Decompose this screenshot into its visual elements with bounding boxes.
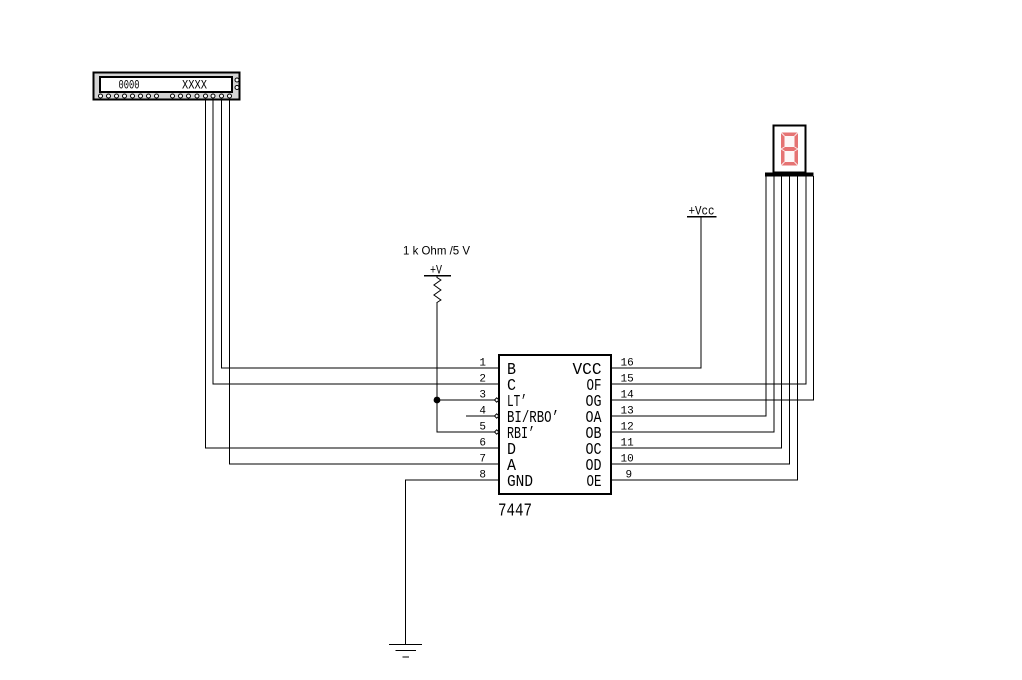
svg-text:16: 16 xyxy=(621,358,634,370)
wire A: word generator to pin 7 xyxy=(230,98,500,464)
ground symbol xyxy=(389,645,422,658)
wire OA pin 13 xyxy=(611,176,766,416)
svg-text:14: 14 xyxy=(621,390,635,402)
IC U1 7447 body xyxy=(495,355,612,522)
word generator side terminals xyxy=(235,78,239,90)
power +Vcc symbol xyxy=(687,204,717,219)
junction node dot at LT/RBI xyxy=(434,397,441,404)
svg-text:1 k Ohm /5 V: 1 k Ohm /5 V xyxy=(403,244,470,258)
svg-text:GND: GND xyxy=(507,473,533,492)
pin numbers right xyxy=(621,358,635,482)
svg-text:13: 13 xyxy=(621,406,634,418)
wire OG pin 14 xyxy=(611,176,814,400)
pin 4 inversion diamond xyxy=(495,414,500,418)
svg-text:2: 2 xyxy=(479,374,486,386)
seven segment digit 8 xyxy=(781,133,798,166)
wire OC pin 11 xyxy=(611,176,782,448)
wire D: word generator to pin 6 xyxy=(206,98,500,448)
wire OB pin 12 xyxy=(611,176,774,432)
svg-text:9: 9 xyxy=(626,470,633,482)
word generator display window xyxy=(100,77,232,92)
wire C: word generator to pin 2 xyxy=(213,98,499,384)
wire B: word generator to pin 1 xyxy=(222,98,500,368)
svg-text:OE: OE xyxy=(587,473,602,492)
wire node LT down to pin 5 RBI xyxy=(437,400,499,432)
wire stub pin 4 BI/RBO xyxy=(466,415,499,417)
resistor R1 1 kOhm xyxy=(403,244,470,303)
svg-text:6: 6 xyxy=(479,438,486,450)
svg-text:12: 12 xyxy=(621,422,634,434)
svg-text:4: 4 xyxy=(479,406,486,418)
power +V symbol for resistor xyxy=(424,263,451,278)
pin numbers left xyxy=(479,358,486,482)
svg-text:15: 15 xyxy=(621,374,634,386)
wire OD pin 10 xyxy=(611,176,790,464)
svg-text:5: 5 xyxy=(479,422,486,434)
word generator U2 body xyxy=(94,73,240,100)
svg-text:3: 3 xyxy=(479,390,486,402)
seven segment pin wire a xyxy=(765,176,767,416)
svg-text:7447: 7447 xyxy=(498,502,532,522)
seven segment bevel lines xyxy=(781,133,798,166)
svg-text:10: 10 xyxy=(621,454,634,466)
pin 5 inversion diamond xyxy=(495,430,500,434)
seven segment display U3 body xyxy=(765,126,814,417)
svg-text:8: 8 xyxy=(479,470,486,482)
word generator bottom terminals xyxy=(99,94,232,98)
svg-text:XXXX: XXXX xyxy=(182,78,207,93)
svg-text:7: 7 xyxy=(479,454,486,466)
svg-text:1: 1 xyxy=(479,358,486,370)
svg-text:11: 11 xyxy=(621,438,635,450)
wire GND: pin 8 to ground xyxy=(406,480,500,645)
wire VCC: pin 16 to +Vcc xyxy=(611,217,701,369)
pin 3 inversion diamond xyxy=(495,398,500,434)
wire OF pin 15 xyxy=(611,176,806,384)
svg-text:0000: 0000 xyxy=(119,78,140,93)
wire OE pin 9 xyxy=(611,176,798,480)
wire resistor to node LT xyxy=(437,302,499,400)
seven segment connector bar xyxy=(765,173,814,177)
